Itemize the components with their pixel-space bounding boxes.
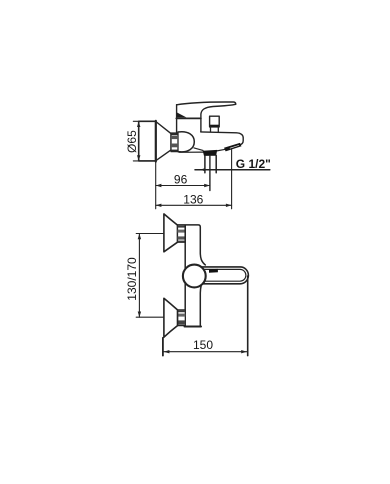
spout outlet (side view, black) bbox=[224, 143, 242, 152]
svg-text:136: 136 bbox=[183, 192, 203, 206]
G 1/2 leader arrow bbox=[200, 168, 206, 171]
dimension 150 line bbox=[164, 351, 247, 353]
wall plate right edge (thick) bbox=[155, 121, 157, 162]
svg-text:130/170: 130/170 bbox=[125, 257, 139, 301]
ball joint (side view) bbox=[178, 132, 194, 152]
dimension 136 line bbox=[156, 204, 232, 206]
dimension 130/170 extension lines bbox=[136, 234, 164, 318]
extension line from spout down bbox=[231, 149, 233, 209]
dimension 150 extension lines bbox=[162, 338, 164, 356]
svg-text:Ø65: Ø65 bbox=[125, 130, 139, 153]
diverter knob (side view) bbox=[210, 116, 220, 132]
shower outlet pipe lines bbox=[205, 155, 216, 172]
dimension 130/170 line bbox=[138, 234, 140, 318]
top wall flange (front view) bbox=[164, 214, 178, 252]
bottom nut (front view, ribbed) bbox=[178, 310, 186, 326]
shower outlet (side view, black) bbox=[203, 150, 218, 156]
svg-text:150: 150 bbox=[193, 338, 213, 352]
wall plate (side view, Ø65 escutcheon) bbox=[139, 121, 156, 161]
handle lever (side view) bbox=[177, 102, 236, 132]
dimension Ø65 arrows bbox=[137, 121, 140, 161]
shower outlet centerline / 96 reference bbox=[209, 155, 211, 190]
dimension 96 line bbox=[156, 185, 210, 187]
svg-text:G 1/2": G 1/2" bbox=[236, 157, 271, 171]
top nut (front view, ribbed) bbox=[178, 225, 186, 242]
body underside left (side view) bbox=[194, 148, 203, 151]
body column bottom edge bbox=[185, 326, 202, 328]
escutcheon cone (side view) bbox=[156, 122, 171, 161]
G 1/2 leader line bbox=[195, 169, 270, 171]
handle lever vertical (side view) bbox=[176, 105, 178, 134]
cartridge circle (front view) bbox=[183, 265, 206, 288]
body (side view) bbox=[201, 132, 244, 145]
bottom wall flange (front view) bbox=[164, 298, 178, 337]
handle (front view) inner bbox=[201, 269, 246, 281]
dimension Ø65 extension lines bbox=[133, 121, 156, 161]
cartridge cap line (side view) bbox=[176, 117, 201, 119]
spout to shower link line (side view) bbox=[216, 149, 226, 151]
handle logo mark bbox=[209, 269, 218, 273]
ball underside line (side view) bbox=[179, 151, 204, 153]
extension line from wall plate down bbox=[155, 162, 157, 209]
connection nut (side view, ribbed) bbox=[171, 133, 178, 152]
svg-text:96: 96 bbox=[174, 172, 188, 186]
handle base wedge (side view, filled) bbox=[177, 112, 187, 117]
handle (front view) outer bbox=[196, 267, 248, 284]
body column (front view) bbox=[178, 225, 206, 327]
